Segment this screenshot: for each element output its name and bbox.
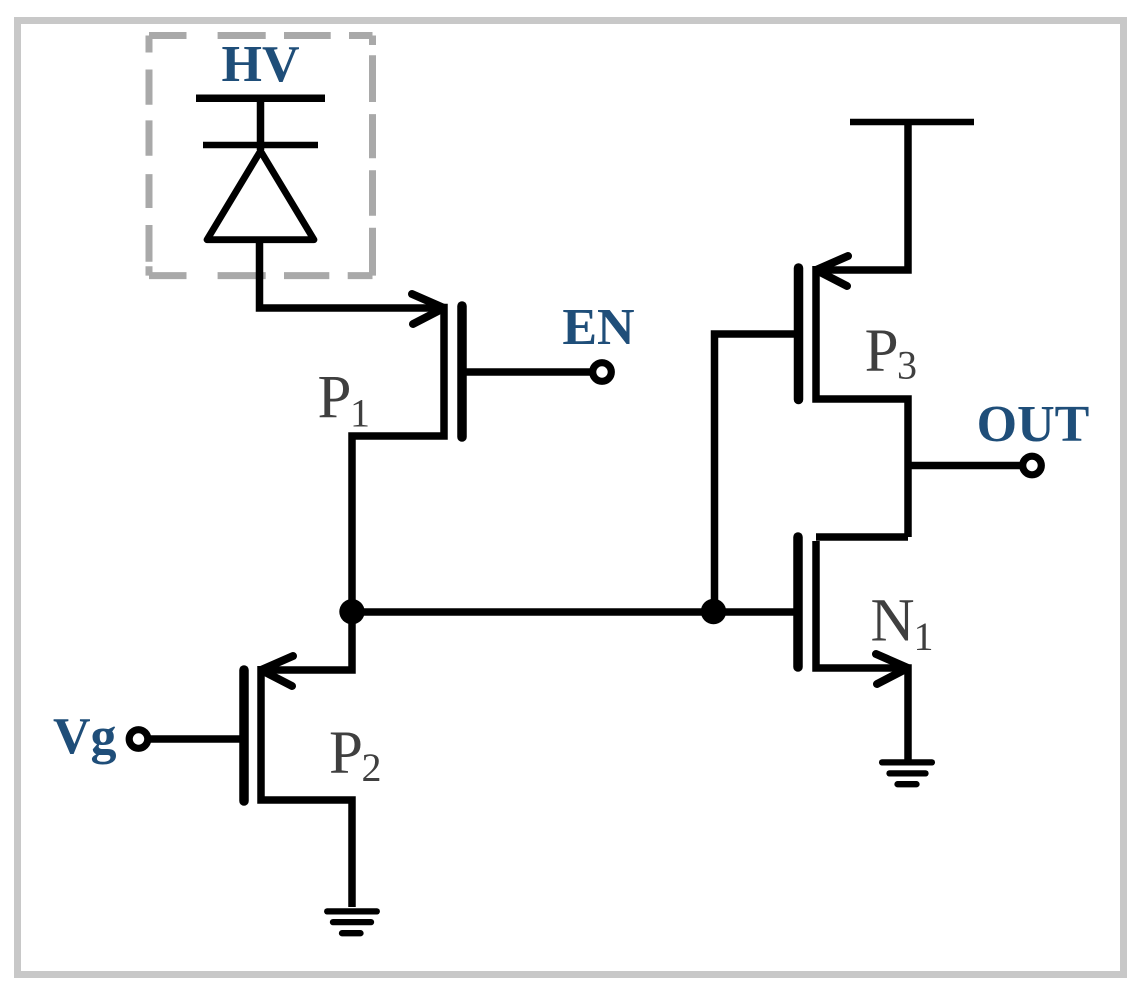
transistor N1 gate bar <box>793 537 803 667</box>
transistor P3 channel <box>816 266 908 537</box>
transistor P1 channel <box>352 304 444 608</box>
solar cell D1 top plate <box>196 95 325 103</box>
terminal EN circle <box>593 363 612 382</box>
svg-text:1: 1 <box>914 614 934 659</box>
transistor P3 gate bar <box>794 268 804 400</box>
svg-text:Vg: Vg <box>53 708 117 765</box>
wire HV to P1 drain <box>260 240 439 308</box>
transistor P2 gate bar <box>239 670 249 801</box>
transistor P2 gate lead from Vg <box>147 735 240 743</box>
arrow out of N1 source <box>876 654 908 684</box>
svg-text:2: 2 <box>362 745 382 790</box>
svg-text:P: P <box>318 364 352 431</box>
ground GND1 <box>327 911 377 933</box>
svg-text:HV: HV <box>222 36 300 93</box>
wire rail to P3 source <box>822 122 908 270</box>
arrow into P3 <box>816 256 848 286</box>
transistor P1 gate lead to EN <box>466 368 598 376</box>
terminal OUT circle <box>1023 456 1042 475</box>
ground GND2 <box>882 762 932 784</box>
svg-text:EN: EN <box>562 299 634 356</box>
dashed box around HV cell <box>149 36 373 276</box>
power rail top right <box>850 119 974 126</box>
solar cell D1 bar <box>203 142 318 149</box>
transistor N1 drain lead <box>816 533 908 541</box>
wire P3 gate to node B <box>715 334 799 608</box>
svg-text:P: P <box>865 318 899 385</box>
arrow into P1 <box>412 294 444 324</box>
svg-text:1: 1 <box>350 391 370 436</box>
transistor P1 gate bar <box>457 306 467 437</box>
svg-text:3: 3 <box>897 343 917 388</box>
terminal Vg circle <box>129 730 148 749</box>
wire to OUT <box>908 462 1026 470</box>
solar cell D1 cathode lead <box>257 98 265 150</box>
arrow into P2 <box>261 656 293 686</box>
node A dot <box>339 599 364 624</box>
transistor P2 channel <box>261 666 352 907</box>
wire node A to N1 gate <box>352 608 796 616</box>
svg-text:N: N <box>871 588 915 655</box>
transistor N1 channel <box>816 541 908 760</box>
svg-text:P: P <box>329 720 363 787</box>
wire node A to P2 drain <box>265 608 352 670</box>
node B dot <box>701 599 726 624</box>
svg-text:OUT: OUT <box>977 396 1090 453</box>
solar cell D1 triangle <box>207 151 314 240</box>
